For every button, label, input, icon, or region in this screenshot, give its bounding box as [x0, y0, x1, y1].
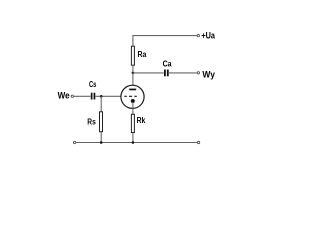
svg-text:Wy: Wy: [202, 70, 215, 80]
wire Cs to grid node and on to tube grid: [95, 95, 121, 97]
node Rs ground junction dot: [100, 141, 103, 144]
wire anode node to Ca and to Wy terminal: [133, 72, 197, 74]
wire grid node down to Rs: [100, 96, 102, 112]
wire We terminal to Cs: [74, 95, 91, 97]
wire Rs bottom to ground rail: [100, 132, 102, 143]
tube anode plate bar: [129, 89, 136, 91]
terminal We: [71, 95, 73, 97]
terminal ground right: [197, 141, 199, 143]
capacitor Cs: [91, 93, 95, 100]
tube cathode dot: [131, 99, 135, 103]
tube triode V1 envelope: [121, 85, 144, 108]
resistor Ra: [131, 46, 134, 65]
svg-text:We: We: [58, 90, 70, 100]
node grid junction dot: [100, 95, 103, 98]
terminal +Ua: [197, 34, 199, 36]
svg-text:+Ua: +Ua: [201, 31, 215, 41]
terminal ground left: [73, 141, 75, 143]
wire cathode lead down to Rk: [132, 102, 134, 114]
wire top rail from Ra up to +Ua terminal: [133, 36, 197, 46]
resistor Rk: [131, 114, 134, 132]
capacitor Ca: [164, 70, 169, 77]
svg-text:Rs: Rs: [87, 117, 96, 126]
wire Rk bottom to ground rail: [132, 133, 134, 143]
svg-text:Cs: Cs: [89, 80, 97, 89]
wire Ra bottom to anode node: [132, 66, 134, 73]
node anode junction dot: [132, 72, 135, 75]
wire anode lead into tube: [132, 73, 134, 85]
svg-text:Ca: Ca: [163, 59, 172, 68]
tube grid dashed electrode: [124, 95, 136, 97]
wire ground rail: [76, 142, 197, 144]
node Rk ground junction dot: [132, 141, 135, 144]
resistor Rs: [100, 112, 103, 132]
svg-text:Ra: Ra: [138, 50, 147, 59]
svg-text:Rk: Rk: [137, 116, 146, 125]
terminal Wy: [197, 72, 199, 74]
